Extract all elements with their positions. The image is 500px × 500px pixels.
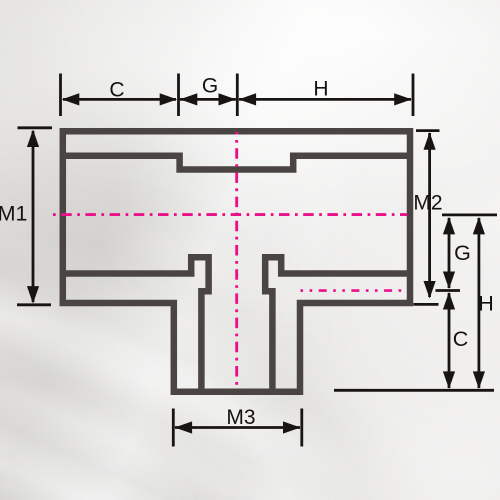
svg-text:H: H [313, 78, 328, 101]
svg-text:G: G [454, 241, 471, 265]
dimension H (right) [477, 218, 480, 388]
svg-text:C: C [453, 327, 469, 351]
socket depth pink line (right socket) [301, 289, 408, 292]
dimension G (top) [180, 98, 236, 101]
right reference line (centerline level) [442, 213, 497, 216]
dimension M2 [428, 133, 431, 297]
tee inner bottom-right profile [265, 257, 410, 392]
vertical centerline [235, 132, 238, 386]
svg-text:M2: M2 [413, 192, 442, 215]
dimension C (right) [448, 293, 451, 388]
top tick x=178.5 [177, 74, 180, 117]
M3 right tick [300, 409, 303, 447]
M2 bottom tick [414, 303, 439, 306]
M3 left tick [172, 409, 175, 447]
M1 top tick [18, 126, 53, 129]
svg-text:M3: M3 [226, 406, 255, 429]
svg-text:M1: M1 [0, 202, 27, 226]
dimension C (top) [63, 98, 176, 101]
top tick x=413 [412, 74, 415, 117]
tee inner bottom-left profile [63, 257, 209, 392]
M1 bottom tick [17, 303, 51, 306]
tee inner top socket/bore profile [63, 156, 410, 170]
dimension G (right) [448, 218, 451, 288]
tee fitting outer outline [63, 131, 410, 392]
svg-text:C: C [109, 79, 124, 102]
dimension H (top) [239, 98, 411, 101]
top tick x=60.5 [59, 74, 62, 117]
top tick x=237.3 [236, 74, 239, 117]
M2 top tick [416, 129, 440, 132]
dimension M3 [175, 426, 300, 429]
dimension M1 [32, 131, 35, 302]
right tick (socket depth level) [436, 289, 461, 292]
bottom reference line [334, 389, 494, 392]
svg-text:H: H [478, 292, 494, 316]
horizontal centerline [51, 213, 408, 216]
svg-text:G: G [202, 75, 218, 98]
